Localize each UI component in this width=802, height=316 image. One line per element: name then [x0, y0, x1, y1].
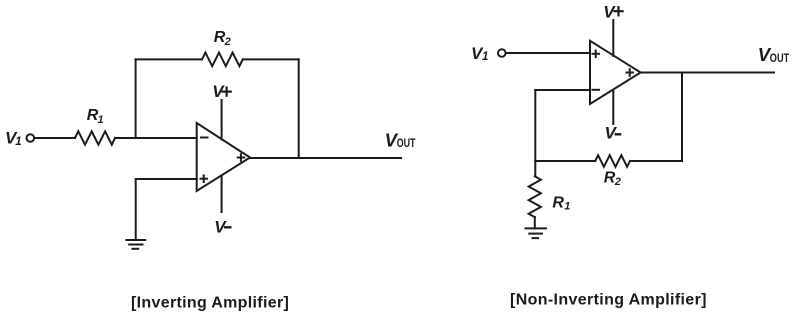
- label V+ (left): [212, 82, 225, 101]
- resistor R1 (left, series input): [75, 131, 115, 144]
- label R1 (left): [87, 107, 104, 126]
- wire R1 to op-amp inverting input: [115, 137, 197, 139]
- caption [Non-Inverting Amplifier]: [510, 291, 707, 308]
- feedback top wire left segment: [136, 58, 202, 60]
- svg-text:2: 2: [224, 36, 231, 48]
- svg-text:1: 1: [564, 200, 570, 212]
- V- supply wire (right op-amp): [612, 90, 614, 124]
- V+ supply wire (left op-amp): [221, 100, 223, 140]
- resistor R2 (right, feedback): [595, 155, 630, 167]
- output wire (left): [250, 157, 401, 159]
- svg-text:[Non-Inverting Amplifier]: [Non-Inverting Amplifier]: [510, 291, 707, 308]
- op-amp U1 (inverting amplifier) triangle: [197, 123, 250, 191]
- op-amp U1 output polarity mark (+): [238, 154, 245, 161]
- wire R1 to ground (right): [534, 217, 536, 228]
- label VOUT (right): [758, 44, 790, 65]
- wire non-inverting input to ground: [136, 179, 197, 240]
- V+ supply wire (right op-amp): [612, 20, 614, 56]
- label R1 (right): [552, 194, 570, 212]
- svg-text:R: R: [552, 194, 564, 211]
- svg-text:[Inverting Amplifier]: [Inverting Amplifier]: [131, 295, 289, 312]
- input terminal circle (left V1): [27, 134, 35, 142]
- svg-text:OUT: OUT: [397, 136, 416, 150]
- feedback left vertical wire (right circuit): [534, 90, 536, 161]
- svg-text:1: 1: [98, 114, 104, 126]
- resistor R1 (right, to ground): [529, 176, 541, 217]
- label V- (right): [605, 123, 618, 142]
- op-amp U1 non-inverting input pin mark (+): [201, 175, 208, 182]
- ground symbol (right): [526, 228, 546, 238]
- svg-text:1: 1: [15, 136, 21, 148]
- op-amp U2 output polarity mark (+): [627, 69, 634, 76]
- label V+ (right): [603, 2, 616, 21]
- wire V1 terminal to op-amp non-inverting input: [506, 52, 590, 54]
- wire junction to R1 (right): [534, 161, 536, 176]
- wire inverting input left segment: [535, 89, 590, 91]
- feedback drop wire from output: [681, 73, 683, 162]
- label VOUT (left): [385, 130, 416, 151]
- op-amp U2 inverting input pin mark (-): [593, 89, 600, 91]
- label V- (left): [214, 218, 227, 237]
- feedback left vertical wire: [135, 59, 137, 138]
- wire V1 terminal to R1: [35, 137, 75, 139]
- V- supply wire (left op-amp): [221, 176, 223, 213]
- svg-text:1: 1: [482, 51, 488, 63]
- op-amp U1 inverting input pin mark (-): [201, 137, 208, 139]
- caption [Inverting Amplifier]: [131, 295, 289, 312]
- feedback right vertical wire down to output: [298, 59, 300, 158]
- op-amp U2 (non-inverting amplifier) triangle: [590, 41, 641, 104]
- node V1 (right input terminal label): [471, 44, 488, 63]
- label R2 (left): [214, 29, 231, 48]
- resistor R2 (left, feedback): [202, 53, 243, 67]
- svg-text:OUT: OUT: [770, 51, 790, 65]
- bottom feedback wire left segment: [535, 160, 595, 162]
- svg-text:2: 2: [614, 176, 621, 188]
- ground symbol (left): [126, 240, 145, 249]
- op-amp U2 non-inverting input pin mark (+): [593, 51, 600, 58]
- output wire (right): [641, 72, 774, 74]
- bottom feedback wire right segment: [630, 160, 682, 162]
- input terminal circle (right V1): [498, 49, 506, 57]
- node V1 (left input terminal label): [5, 128, 22, 148]
- svg-text:V: V: [605, 123, 618, 142]
- feedback top wire right segment: [243, 58, 299, 60]
- label R2 (right): [604, 170, 621, 189]
